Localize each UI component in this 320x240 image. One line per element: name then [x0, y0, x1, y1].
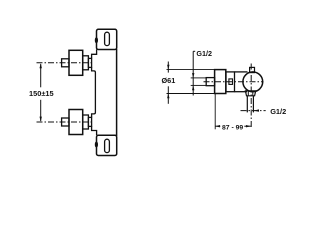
- top block oval slot: [105, 32, 110, 45]
- top valve stem: [62, 59, 69, 67]
- side knob: [215, 70, 226, 94]
- top block side nub: [96, 38, 98, 42]
- g12 leader vertical: [192, 51, 194, 95]
- vertical centerline: [250, 64, 252, 128]
- top valve adapter: [83, 56, 89, 70]
- g12 right leader: [241, 110, 266, 112]
- svg-text:G1/2: G1/2: [270, 107, 286, 116]
- top fitting: [250, 67, 255, 72]
- bottom mounting block: [97, 135, 117, 155]
- top valve knob: [69, 50, 83, 75]
- dim line 150 lower segment: [40, 100, 42, 121]
- nut inner line left: [247, 91, 249, 96]
- dia61 arrow down: [167, 65, 169, 70]
- bottom block oval slot: [105, 139, 110, 152]
- dia61 ext bottom: [167, 93, 215, 95]
- housing bottom line: [235, 91, 248, 93]
- side adapter: [226, 72, 235, 92]
- 87-99 dim line right stub: [244, 125, 251, 127]
- body circle: [243, 72, 263, 92]
- housing top line: [235, 71, 248, 73]
- bottom centerline: [37, 121, 93, 123]
- side hex inner rect: [229, 79, 233, 85]
- bottom valve stem: [62, 118, 69, 126]
- nut inner line right: [252, 91, 254, 96]
- g12 arrow up: [192, 85, 194, 90]
- g12 leader tick: [193, 50, 195, 52]
- dim line 150 upper segment: [40, 64, 42, 87]
- body bar right edge: [116, 49, 118, 136]
- body profile lower step: [92, 126, 97, 135]
- g12 right arrow: [253, 109, 259, 111]
- 87-99 dim line left stub: [215, 125, 220, 127]
- bottom block side nub: [96, 142, 98, 146]
- arrow up (150 dim): [40, 63, 42, 68]
- horizontal centerline: [204, 81, 264, 83]
- svg-text:Ø61: Ø61: [162, 76, 176, 85]
- side stem: [206, 78, 214, 86]
- bottom union nut: [88, 117, 91, 126]
- g12 ext bottom: [191, 84, 207, 86]
- svg-text:87 - 99: 87 - 99: [222, 124, 243, 131]
- g12 ext top: [191, 77, 207, 79]
- body profile upper step: [92, 50, 97, 59]
- dia61 arrow up: [167, 94, 169, 99]
- top union nut: [88, 58, 91, 67]
- dia61 dim line lower: [167, 86, 169, 104]
- pipe right wall: [252, 96, 254, 113]
- dia61 dim line upper: [167, 62, 169, 73]
- body bar left edge: [92, 67, 96, 117]
- 87-99 arrow left: [215, 125, 220, 127]
- arrow down (150 dim): [40, 117, 42, 122]
- top mounting block: [97, 29, 117, 49]
- 87-99 left ext: [214, 94, 216, 130]
- pipe left wall: [246, 96, 248, 113]
- dia61 ext top: [167, 69, 215, 71]
- g12 arrow down: [192, 73, 194, 78]
- bottom valve knob: [69, 110, 83, 135]
- svg-text:G1/2: G1/2: [196, 49, 212, 58]
- svg-text:150±15: 150±15: [29, 89, 54, 98]
- bottom valve adapter: [83, 115, 89, 129]
- 87-99 arrow right: [246, 125, 251, 127]
- top centerline: [37, 62, 93, 64]
- bottom nut: [245, 91, 255, 96]
